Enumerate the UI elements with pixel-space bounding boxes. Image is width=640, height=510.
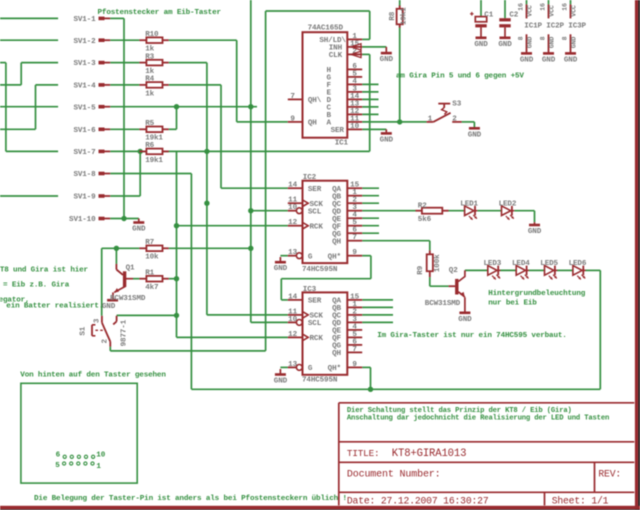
svg-text:R4: R4 [145, 76, 154, 84]
svg-text:1: 1 [428, 115, 433, 123]
svg-text:KT8 und Gira ist hier: KT8 und Gira ist hier [0, 267, 89, 275]
svg-text:10: 10 [350, 123, 359, 131]
svg-text:6: 6 [56, 451, 61, 459]
svg-text:QH: QH [332, 350, 341, 358]
svg-text:Pfostenstecker am Eib-Taster: Pfostenstecker am Eib-Taster [98, 9, 222, 17]
svg-text:GND: GND [458, 316, 472, 324]
svg-text:IC2P: IC2P [546, 22, 564, 30]
svg-text:16: 16 [540, 3, 547, 11]
svg-text:BCW31SMD: BCW31SMD [110, 295, 146, 303]
svg-text:G: G [308, 365, 313, 373]
svg-text:8: 8 [518, 36, 525, 40]
svg-text:CLK: CLK [329, 52, 343, 60]
svg-text:9: 9 [352, 361, 357, 369]
svg-text:7: 7 [290, 93, 295, 101]
svg-text:4k7: 4k7 [145, 284, 159, 292]
svg-text:5k6: 5k6 [418, 216, 432, 224]
svg-text:Date: 27.12.2007 16:30:27: Date: 27.12.2007 16:30:27 [347, 496, 489, 507]
svg-text:C1: C1 [484, 12, 493, 20]
svg-text:am Gira Pin 5 und 6 gegen +5V: am Gira Pin 5 und 6 gegen +5V [396, 72, 524, 80]
svg-text:VCC: VCC [549, 5, 556, 17]
svg-text:9: 9 [352, 249, 357, 257]
svg-text:nur bei Eib: nur bei Eib [488, 299, 537, 307]
svg-text:100k: 100k [434, 254, 442, 272]
svg-text:Von hinten auf den Taster gese: Von hinten auf den Taster gesehen [20, 371, 166, 379]
svg-text:REV:: REV: [598, 469, 621, 480]
svg-text:GND: GND [468, 131, 482, 139]
svg-text:R9: R9 [417, 265, 425, 274]
svg-text:R6: R6 [145, 142, 154, 150]
svg-text:GND: GND [542, 57, 556, 65]
svg-text:QH*: QH* [328, 365, 341, 373]
svg-text:19k1: 19k1 [145, 157, 163, 165]
svg-text:10: 10 [96, 451, 105, 459]
svg-text:9: 9 [290, 115, 295, 123]
svg-text:19k1: 19k1 [401, 7, 409, 25]
svg-text:R1: R1 [145, 270, 154, 278]
svg-text:R2: R2 [418, 202, 427, 210]
svg-text:BCW31SMD: BCW31SMD [425, 300, 461, 308]
svg-text:GND: GND [102, 303, 116, 311]
svg-text:R8: R8 [389, 11, 397, 20]
svg-text:SV1-4: SV1-4 [73, 83, 96, 91]
svg-text:GND: GND [274, 378, 288, 386]
svg-text:SV1-1: SV1-1 [73, 16, 96, 24]
svg-text:SCL: SCL [308, 320, 322, 328]
svg-text:GND: GND [474, 41, 488, 49]
svg-text:GND: GND [132, 226, 146, 234]
svg-text:1k: 1k [145, 90, 154, 98]
svg-text:1: 1 [96, 463, 101, 471]
svg-text:16: 16 [518, 3, 525, 11]
svg-text:2: 2 [101, 339, 109, 344]
svg-text:LED2: LED2 [499, 201, 517, 209]
svg-text:G: G [308, 253, 313, 261]
svg-text:LED1: LED1 [460, 201, 478, 209]
svg-text:= Eib z.B. Gira: = Eib z.B. Gira [3, 282, 70, 290]
svg-text:IC1: IC1 [335, 140, 349, 148]
svg-text:12: 12 [288, 219, 297, 227]
svg-text:QH*: QH* [328, 253, 341, 261]
svg-text:SV1-5: SV1-5 [73, 104, 96, 112]
svg-text:C2: C2 [509, 12, 518, 20]
svg-text:GND: GND [380, 136, 394, 144]
svg-text:9877-1: 9877-1 [121, 319, 129, 346]
svg-text:GND: GND [498, 41, 512, 49]
svg-text:S1: S1 [79, 326, 87, 335]
svg-text:VCC: VCC [571, 5, 578, 17]
svg-text:SV1-7: SV1-7 [73, 149, 96, 157]
svg-text:74HC595N: 74HC595N [302, 376, 338, 384]
svg-text:Sheet: 1/1: Sheet: 1/1 [552, 496, 609, 507]
svg-text:SER: SER [308, 186, 322, 194]
svg-text:GND: GND [527, 37, 534, 49]
svg-text:TITLE:: TITLE: [347, 448, 380, 459]
svg-text:R7: R7 [145, 239, 154, 247]
svg-text:R3: R3 [145, 53, 154, 61]
svg-text:VCC: VCC [527, 5, 534, 17]
svg-text:12: 12 [288, 331, 297, 339]
svg-text:Hintergrundbeleuchtung: Hintergrundbeleuchtung [488, 290, 586, 298]
svg-text:13: 13 [288, 361, 297, 369]
svg-text:GND: GND [528, 228, 542, 236]
svg-text:GND: GND [380, 56, 394, 64]
svg-text:8: 8 [540, 36, 547, 40]
svg-text:IC2: IC2 [303, 174, 317, 182]
svg-text:SV1-9: SV1-9 [73, 194, 96, 202]
svg-text:IC3P: IC3P [568, 22, 586, 30]
svg-text:Document Number:: Document Number: [347, 469, 441, 481]
svg-text:16: 16 [562, 3, 569, 11]
svg-text:IC3: IC3 [303, 286, 317, 294]
svg-text:LED5: LED5 [540, 260, 558, 268]
svg-text:SV1-10: SV1-10 [69, 216, 96, 224]
svg-text:GND: GND [564, 57, 578, 65]
svg-text:SV1-3: SV1-3 [73, 60, 96, 68]
svg-text:QH: QH [308, 120, 317, 128]
svg-text:GND: GND [549, 37, 556, 49]
svg-text:3: 3 [93, 318, 101, 323]
svg-text:R10: R10 [145, 31, 159, 39]
svg-text:10: 10 [288, 204, 297, 212]
svg-text:SCL: SCL [308, 208, 322, 216]
svg-text:RCK: RCK [310, 223, 324, 231]
svg-text:Q2: Q2 [449, 267, 458, 275]
svg-text:IC1P: IC1P [524, 22, 542, 30]
svg-text:S3: S3 [452, 100, 461, 108]
svg-text:10: 10 [288, 316, 297, 324]
svg-text:10k: 10k [145, 254, 159, 262]
svg-text:2: 2 [452, 115, 457, 123]
svg-text:ein Batter realisiert.: ein Batter realisiert. [6, 302, 103, 310]
svg-text:8: 8 [562, 36, 569, 40]
svg-text:Anschaltung dar jedochnicht di: Anschaltung dar jedochnicht die Realisie… [347, 414, 609, 422]
svg-text:R5: R5 [145, 120, 154, 128]
svg-text:Q1: Q1 [126, 265, 135, 273]
svg-text:14: 14 [288, 182, 297, 190]
svg-text:GND: GND [571, 37, 578, 49]
svg-text:SER: SER [331, 127, 345, 135]
svg-text:7: 7 [352, 346, 357, 354]
svg-text:SV1-2: SV1-2 [73, 38, 96, 46]
svg-text:13: 13 [288, 249, 297, 257]
svg-text:KT8+GIRA1013: KT8+GIRA1013 [392, 448, 467, 460]
svg-text:GND: GND [520, 57, 534, 65]
svg-text:74HC595N: 74HC595N [302, 266, 338, 274]
svg-text:LED3: LED3 [484, 260, 502, 268]
svg-text:SV1-8: SV1-8 [73, 171, 96, 179]
svg-text:74AC165D: 74AC165D [308, 25, 344, 33]
svg-text:RCK: RCK [310, 335, 324, 343]
svg-text:GND: GND [274, 265, 288, 273]
svg-text:1k: 1k [145, 46, 154, 54]
svg-text:14: 14 [288, 293, 297, 301]
svg-text:7: 7 [352, 234, 357, 242]
svg-text:5: 5 [55, 462, 60, 470]
svg-text:LED4: LED4 [512, 260, 530, 268]
svg-text:LED6: LED6 [569, 260, 587, 268]
svg-text:Die Belegung der Taster-Pin is: Die Belegung der Taster-Pin ist anders a… [34, 495, 347, 503]
svg-text:QH\: QH\ [308, 97, 322, 105]
svg-text:SER: SER [308, 298, 322, 306]
svg-text:QH: QH [332, 238, 341, 246]
svg-text:Im Gira-Taster ist nur ein 74H: Im Gira-Taster ist nur ein 74HC595 verba… [377, 332, 567, 340]
svg-text:SV1-6: SV1-6 [73, 127, 96, 135]
